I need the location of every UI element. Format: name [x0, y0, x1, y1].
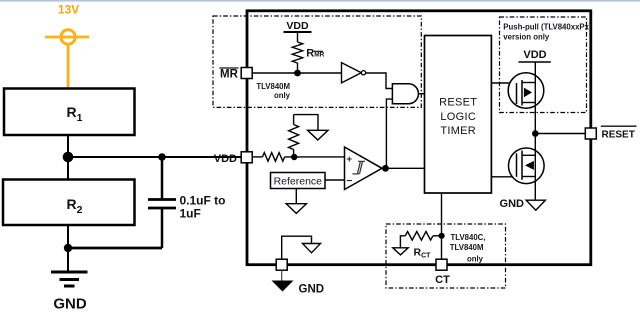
svg-text:TIMER: TIMER [440, 125, 476, 137]
junction push-pull output [532, 130, 539, 137]
transistor Q1 (PMOS) [508, 62, 544, 134]
label TLV840C, TLV840M only [450, 233, 486, 264]
svg-text:−: − [347, 176, 353, 187]
wire buffer to AND top input [366, 73, 392, 89]
bottom node junction [64, 244, 72, 252]
svg-text:LOGIC: LOGIC [440, 111, 476, 123]
wire AND to reset logic [418, 93, 424, 95]
capacitor C1 0.1uF to 1uF [148, 157, 176, 248]
pin GND [276, 259, 287, 270]
VDD rail (push-pull) [519, 49, 551, 62]
svg-text:CT: CT [435, 274, 450, 286]
AND gate U3 [392, 84, 418, 104]
svg-text:RESET: RESET [602, 130, 635, 141]
wire node A to VDD pin [68, 156, 241, 158]
svg-text:Reference: Reference [274, 176, 323, 188]
pin VDD [210, 152, 252, 165]
transistor Q2 (NMOS) [509, 134, 545, 201]
resistor divider (vertical) [289, 115, 299, 157]
resistor R1 [4, 89, 135, 136]
VDD rail (MR pullup) [284, 20, 312, 42]
dashed box TLV840M only (MR section) [213, 16, 421, 107]
junction RMR/MR wire [294, 70, 301, 77]
svg-text:+: + [347, 154, 353, 165]
wire divider top to arrow [294, 115, 318, 131]
svg-text:TLV840C,: TLV840C, [451, 233, 486, 242]
resistor R2 [3, 180, 135, 226]
svg-text:GND: GND [299, 284, 325, 296]
label push-pull [503, 23, 592, 42]
wire R2 to bottom node [67, 225, 69, 248]
Reference block [271, 173, 326, 189]
svg-text:RESET: RESET [439, 97, 477, 109]
wire node A to R2 [67, 157, 69, 180]
wire supply to R1 [67, 44, 70, 89]
RESET LOGIC TIMER block [425, 36, 492, 194]
junction divider [291, 154, 297, 160]
junction cap top [158, 153, 166, 161]
svg-text:MR: MR [220, 69, 239, 81]
wire to RESET pin [535, 133, 585, 135]
ground GND [51, 248, 88, 312]
resistor input (horizontal) [252, 153, 344, 162]
svg-text:only: only [274, 91, 291, 100]
comparator output junction [382, 165, 389, 172]
wire GND pin to ground [281, 270, 283, 281]
svg-text:13V: 13V [58, 3, 79, 17]
wire GND pin to arrow [282, 236, 312, 259]
wire cap bottom to node [68, 247, 162, 250]
arrow symbol (gnd internal) [303, 244, 321, 253]
svg-text:only: only [467, 255, 484, 264]
svg-text:Push-pull (TLV840xxPx): Push-pull (TLV840xxPx) [503, 23, 592, 32]
label RMR [306, 48, 324, 60]
wire comparator to reset logic [382, 167, 425, 169]
ground (filled) [272, 281, 294, 292]
wire R1 to node A [67, 135, 69, 157]
pin MR [241, 68, 252, 79]
wire MR pin to buffer [252, 72, 342, 74]
svg-text:GND: GND [500, 198, 525, 210]
ground RCT [393, 248, 408, 255]
svg-text:1uF: 1uF [180, 206, 201, 220]
IC outline [247, 11, 591, 265]
supply node 13V [45, 3, 89, 45]
svg-text:version only: version only [503, 33, 550, 42]
ground under reference [286, 189, 306, 214]
dashed box push-pull version [500, 17, 587, 113]
svg-text:VDD: VDD [286, 20, 309, 32]
label 0.1uF to 1uF [180, 194, 226, 221]
svg-text:TLV840M: TLV840M [256, 82, 290, 91]
svg-text:GND: GND [53, 296, 87, 312]
node A junction [63, 152, 74, 163]
resistor RMR [292, 42, 302, 73]
wire reference to comparator [325, 179, 345, 181]
pin RESET [585, 128, 596, 139]
svg-text:VDD: VDD [523, 49, 546, 61]
buffer U2 [342, 63, 366, 83]
pin CT [436, 259, 447, 270]
wire gate PMOS [491, 82, 516, 84]
label TLV840M only [256, 82, 290, 100]
wire reset logic to CT pin [441, 193, 443, 259]
junction CT [439, 233, 445, 239]
arrow symbol (to gnd) [308, 130, 328, 140]
svg-text:TLV840M: TLV840M [450, 243, 484, 252]
wire comparator out to AND bottom input [386, 99, 392, 168]
svg-text:VDD: VDD [214, 153, 237, 165]
label RESET (overbar) [601, 126, 637, 140]
comparator U1 [345, 147, 383, 190]
resistor RCT [400, 232, 441, 248]
label MR (overbar) [220, 68, 239, 81]
dashed box TLV840C/M only (CT section) [386, 224, 506, 288]
ground NMOS source [500, 198, 546, 210]
wire gate NMOS [491, 176, 516, 178]
